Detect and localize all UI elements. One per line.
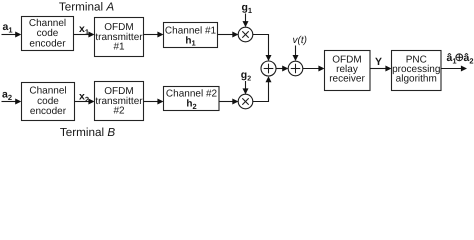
wire a2 input: [2, 99, 22, 105]
block channel #1 h1 (U3): [164, 23, 218, 48]
wire M1 to adder S1: [253, 35, 272, 62]
wire transmitter2 to channel2: [144, 99, 164, 105]
adder S2: [288, 61, 303, 76]
node g2 label: [241, 69, 251, 83]
wire g2 input: [243, 81, 249, 94]
wire S2 to relay receiver: [303, 66, 325, 72]
block channel code encoder B (U4): [22, 83, 75, 121]
svg-text:#2: #2: [113, 106, 125, 117]
svg-text:algorithm: algorithm: [396, 73, 437, 84]
wire a1 input: [2, 32, 22, 38]
node a1 label: [3, 21, 13, 35]
multiplier M2: [238, 94, 253, 109]
wire channel2 to multiplier M2: [220, 99, 239, 105]
wire S1 to S2: [276, 66, 288, 72]
block channel code encoder A (U1): [22, 17, 74, 51]
svg-text:Terminal A: Terminal A: [59, 1, 114, 14]
block OFDM transmitter #1 (U2): [95, 18, 144, 57]
block OFDM transmitter #2 (U5): [95, 82, 144, 121]
svg-text:receiver: receiver: [329, 73, 365, 84]
block OFDM relay receiver (U7): [325, 51, 371, 91]
node Y label: [375, 56, 382, 68]
node output label a1 xor a2: [447, 52, 474, 66]
svg-text:encoder: encoder: [29, 38, 66, 49]
node x2 label: [79, 91, 89, 105]
node v(t) label: [293, 35, 307, 46]
svg-text:Terminal B: Terminal B: [60, 126, 115, 139]
label Terminal A: [59, 1, 114, 14]
node g1 label: [242, 2, 253, 16]
wire M2 to adder S1: [253, 76, 272, 101]
label Terminal B: [60, 126, 115, 139]
svg-text:Y: Y: [375, 56, 382, 68]
svg-text:#1: #1: [113, 42, 125, 53]
wire x1: [74, 32, 95, 38]
adder S1: [261, 61, 276, 76]
multiplier M1: [238, 27, 253, 42]
block channel #2 h2 (U6): [164, 87, 220, 111]
wire Y: [370, 66, 392, 72]
wire transmitter1 to channel1: [144, 32, 164, 38]
svg-text:encoder: encoder: [30, 106, 67, 117]
block PNC processing algorithm (U8): [392, 51, 442, 91]
wire output: [441, 66, 467, 72]
wire x2: [75, 99, 95, 105]
wire g1 input: [243, 14, 249, 28]
wire channel1 to multiplier M1: [218, 32, 239, 38]
node x1 label: [79, 23, 89, 37]
svg-text:v(t): v(t): [293, 35, 307, 46]
wire v(t) input: [293, 46, 299, 62]
node a2 label: [2, 89, 12, 103]
